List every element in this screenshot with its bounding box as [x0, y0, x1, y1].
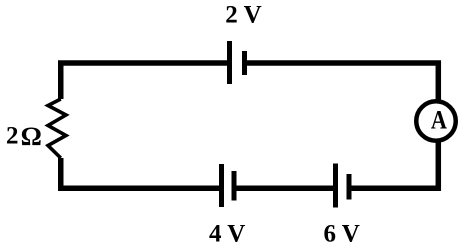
svg-text:2 V: 2 V — [225, 2, 261, 29]
svg-text:A: A — [431, 106, 447, 135]
svg-text:2: 2 — [6, 123, 19, 150]
svg-text:6 V: 6 V — [324, 221, 360, 248]
svg-text:4 V: 4 V — [209, 221, 245, 248]
svg-text:Ω: Ω — [21, 121, 42, 151]
